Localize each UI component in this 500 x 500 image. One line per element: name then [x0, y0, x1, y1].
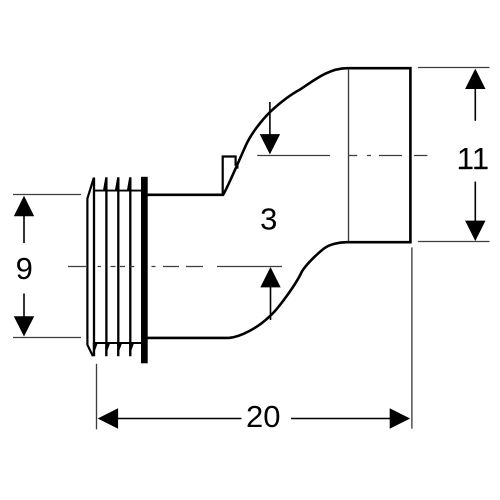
- serif foot of second 1: [475, 167, 488, 169]
- sleeve left outline: [87, 178, 93, 356]
- dimension 3 lower tail: [270, 286, 272, 320]
- dimension 20 left extension line: [96, 364, 98, 430]
- sleeve top lip wedge 4: [127, 177, 132, 191]
- dimension 11 upper arrow: [465, 69, 485, 89]
- sleeve top lip wedge 2: [103, 177, 108, 191]
- dimension 9 top extension line: [13, 194, 81, 196]
- outlet axis centerline (dash-dot): [257, 155, 427, 157]
- sleeve bottom lip wedge 1: [93, 342, 98, 356]
- dimension 9 line upper segment: [23, 215, 25, 243]
- dimension 3 upper arrow (points down): [260, 134, 280, 154]
- sleeve fin lip 2: [105, 178, 107, 357]
- dimension 11 top extension line: [418, 67, 490, 69]
- serif foot of first 1: [459, 167, 472, 169]
- dimension 20 right extension line: [411, 248, 413, 429]
- dimension 20 line left segment: [117, 418, 242, 420]
- dimension 3 upper tail: [269, 102, 271, 135]
- dimension 3 lower arrow (points up): [260, 267, 280, 287]
- dimension 11 line lower segment: [474, 182, 476, 222]
- dimension 11 bottom extension line: [418, 241, 490, 243]
- svg-text:3: 3: [260, 201, 277, 236]
- body outline with bend and outlet: [147, 68, 410, 338]
- sleeve fin lip 3: [117, 178, 119, 357]
- sleeve fin lip 4: [129, 178, 131, 357]
- dimension 20 right arrow: [390, 408, 410, 428]
- dimension 9 lower arrow: [14, 316, 34, 336]
- svg-text:11: 11: [457, 141, 489, 176]
- sleeve bottom lip wedge 2: [105, 342, 110, 356]
- alignment tab on body top: [223, 157, 238, 195]
- sleeve top lip wedge 3: [115, 177, 120, 191]
- dimension 11 lower arrow: [465, 221, 485, 241]
- outlet socket depth line: [348, 69, 350, 241]
- sleeve top root line: [94, 190, 141, 192]
- sleeve axis centerline (dash-dot): [68, 266, 282, 268]
- dimension 9 bottom extension line: [13, 337, 81, 339]
- sleeve bottom lip wedge 3: [117, 342, 122, 356]
- sleeve bottom lip wedge 4: [129, 342, 134, 356]
- sleeve fin lip 1: [93, 178, 95, 357]
- dimension 9 line lower segment: [23, 294, 25, 318]
- sleeve bottom root line: [94, 342, 141, 344]
- dimension 9 upper arrow: [14, 196, 34, 217]
- sleeve end flange bar: [141, 177, 148, 363]
- dimension 11 line upper segment: [474, 88, 476, 121]
- dimension 20 line right segment: [291, 418, 391, 420]
- svg-text:9: 9: [16, 251, 33, 286]
- svg-text:20: 20: [246, 399, 280, 434]
- dimension 20 left arrow: [98, 408, 118, 428]
